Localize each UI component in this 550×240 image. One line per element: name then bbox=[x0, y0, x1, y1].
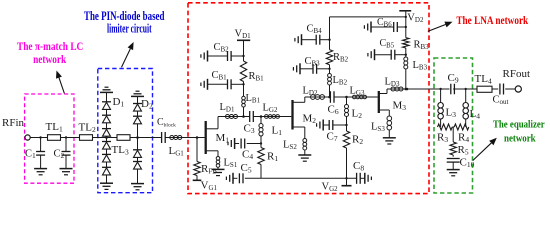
svg-text:RFout: RFout bbox=[503, 68, 531, 80]
svg-text:The LNA network: The LNA network bbox=[456, 13, 528, 27]
svg-text:network: network bbox=[504, 133, 536, 144]
svg-text:C2: C2 bbox=[54, 149, 65, 161]
svg-text:network: network bbox=[33, 52, 66, 66]
svg-text:C1: C1 bbox=[25, 149, 36, 161]
svg-text:limiter circuit: limiter circuit bbox=[107, 21, 152, 35]
svg-text:RFin: RFin bbox=[2, 117, 25, 129]
svg-text:The equalizer: The equalizer bbox=[493, 119, 545, 130]
svg-text:The π-match LC: The π-match LC bbox=[17, 39, 83, 53]
